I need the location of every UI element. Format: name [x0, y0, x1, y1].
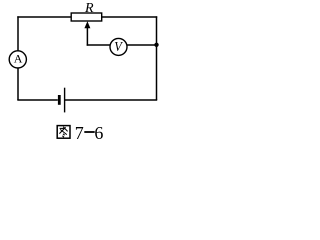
caption dash [84, 131, 94, 133]
battery [59, 88, 64, 113]
wiper arrow of rheostat [84, 21, 90, 45]
wire: right vertical rail [156, 16, 158, 100]
svg-text:7: 7 [75, 123, 84, 143]
svg-text:R: R [84, 1, 94, 16]
svg-text:A: A [14, 52, 23, 66]
wire: top-right horizontal from rheostat to right rail [102, 16, 157, 18]
voltmeter V [110, 38, 127, 55]
ammeter A [9, 51, 26, 68]
caption character 图 (drawn) [57, 126, 70, 139]
wire: bottom horizontal right (battery to right rail) [65, 99, 158, 101]
svg-text:6: 6 [94, 123, 103, 143]
wire: bottom horizontal left (corner to battery) [17, 99, 58, 101]
junction dot on right rail [154, 43, 158, 47]
svg-text:V: V [114, 40, 123, 55]
wire: top-left horizontal from left corner to rheostat [17, 16, 71, 18]
resistor R (rheostat body) [71, 13, 102, 21]
wire: wiper to voltmeter [87, 44, 110, 46]
wire: voltmeter to right rail [127, 44, 157, 46]
wire: left vertical lower segment (ammeter bottom to bottom corner) [17, 68, 19, 100]
wire: left vertical upper segment (corner to ammeter top) [17, 16, 19, 51]
